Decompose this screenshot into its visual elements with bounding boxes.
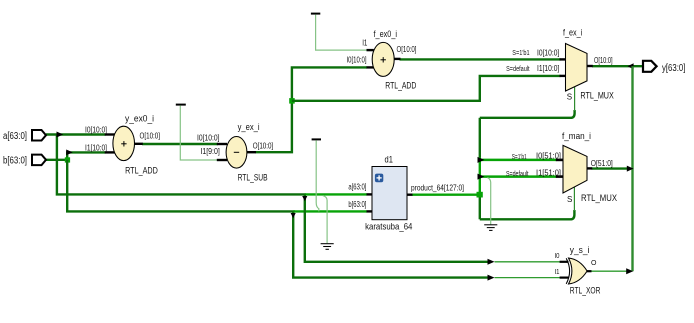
node arrow f_man I1 [478, 174, 485, 180]
corner arrow at b drop [291, 213, 296, 218]
wire: b branch down vertical and bottom run to karatsuba b [67, 160, 367, 212]
svg-text:S=1'b1: S=1'b1 [512, 50, 529, 57]
svg-text:RTL_XOR: RTL_XOR [570, 286, 601, 297]
const tie T2 [312, 139, 321, 211]
node arrow on b upper branch [66, 150, 73, 156]
junction square on b wire [65, 157, 70, 162]
svg-text:I1[10:0]: I1[10:0] [85, 143, 107, 153]
svg-text:a[63:0]: a[63:0] [3, 131, 27, 142]
wire: f_man_i I0 branch [480, 159, 557, 162]
svg-text:y[63:0]: y[63:0] [662, 63, 686, 74]
node arrow f_man O [627, 166, 634, 172]
wire: b drop to XOR I1 run [293, 211, 488, 277]
svg-text:f_man_i: f_man_i [562, 131, 591, 142]
port a[63:0] [3, 130, 46, 142]
wire: f_man_i O to vertical [592, 167, 629, 169]
wire: XOR O to vertical [591, 270, 629, 272]
svg-text:y_ex_i: y_ex_i [238, 122, 260, 133]
thin wire into XOR I0 [495, 261, 562, 263]
const tie T1 for y_ex_i I1 [176, 105, 218, 160]
svg-text:y_ex0_i: y_ex0_i [125, 114, 154, 125]
junction square product [477, 192, 483, 198]
svg-text:S: S [567, 93, 572, 102]
gate y_s_i RTL_XOR [555, 245, 601, 297]
svg-text:karatsuba_64: karatsuba_64 [365, 222, 412, 233]
junction square on vertical [289, 98, 295, 104]
svg-text:S=1'b1: S=1'b1 [512, 154, 527, 161]
node arrow on a wire [57, 132, 64, 138]
svg-text:RTL_MUX: RTL_MUX [581, 193, 618, 204]
op y_ex0_i RTL_ADD [85, 114, 160, 177]
svg-text:S: S [567, 195, 572, 204]
block d1 karatsuba_64 [348, 154, 464, 232]
wire: product_64 run [412, 193, 478, 195]
mux f_ex_i RTL_MUX [506, 28, 614, 102]
wire: f_ex_i O to y port [592, 65, 643, 67]
port y[63:0] [643, 61, 686, 74]
svg-text:RTL_ADD: RTL_ADD [125, 165, 158, 176]
svg-text:f_ex_i: f_ex_i [563, 28, 582, 39]
node arrow at y port junction (tip left) [628, 63, 634, 69]
svg-text:O[10:0]: O[10:0] [140, 131, 161, 141]
svg-text:S=default: S=default [506, 171, 529, 178]
wire: y_ex0_i O to y_ex_i I0 [142, 143, 218, 145]
svg-text:a[63:0]: a[63:0] [348, 181, 366, 191]
wire: f_ex_i S path [480, 87, 575, 118]
thin wire into XOR I1 [495, 277, 562, 279]
svg-text:I1[51:0]: I1[51:0] [536, 168, 561, 178]
svg-text:I0[10:0]: I0[10:0] [197, 132, 220, 142]
svg-text:RTL_SUB: RTL_SUB [238, 173, 268, 184]
svg-text:b[63:0]: b[63:0] [348, 199, 366, 209]
op y_ex_i RTL_SUB [197, 122, 273, 183]
wire: a input run to y_ex0_i I0 [46, 133, 106, 135]
svg-text:I0[10:0]: I0[10:0] [537, 48, 559, 58]
svg-text:I0[10:0]: I0[10:0] [347, 55, 367, 65]
ground G1 tap from a run [321, 196, 334, 250]
node arrow before XOR I1 [488, 275, 495, 281]
svg-text:I0[10:0]: I0[10:0] [85, 125, 107, 135]
svg-text:O: O [591, 260, 597, 267]
svg-text:O[10:0]: O[10:0] [253, 140, 274, 150]
svg-text:O[51:0]: O[51:0] [591, 158, 613, 168]
ground G2 tap from f_man I1 wire [484, 178, 497, 231]
wire: a branch down-left vertical and bottom run to karatsuba a [57, 135, 367, 195]
svg-text:b[63:0]: b[63:0] [3, 156, 27, 167]
corner arrow at a drop [302, 196, 307, 201]
svg-text:I1: I1 [362, 38, 367, 48]
wire: b branch up to y_ex0_i I1 [67, 152, 105, 159]
mux f_man_i RTL_MUX [506, 131, 618, 204]
op f_ex0_i RTL_ADD [347, 29, 417, 91]
wire: b input run [46, 159, 69, 161]
svg-text:RTL_ADD: RTL_ADD [385, 81, 416, 92]
svg-text:RTL_MUX: RTL_MUX [580, 90, 614, 101]
svg-text:I1: I1 [555, 269, 560, 276]
wire: a drop to XOR I0 run [305, 194, 488, 261]
node arrow f_man I0 [478, 157, 485, 163]
const tie T3 for f_ex0_i I1 [311, 14, 368, 51]
svg-text:I0[51:0]: I0[51:0] [536, 151, 561, 161]
vertical bus on right [631, 66, 633, 271]
wire: y_ex_i O up to f_ex0_i I0 [256, 67, 368, 152]
port b[63:0] [3, 155, 46, 167]
wire: f_ex0_i O to f_ex_i I0 [400, 58, 561, 60]
wire: f_man_i S path [480, 187, 575, 219]
node arrow before XOR I0 [488, 259, 495, 265]
wire: product vertical bus [479, 118, 481, 220]
wire: branch to f_ex_i I1 [292, 76, 561, 101]
svg-text:I1[10:0]: I1[10:0] [537, 63, 559, 73]
svg-text:O[10:0]: O[10:0] [594, 55, 613, 65]
wire: f_man_i I1 branch [480, 175, 557, 178]
node arrow XOR O [626, 268, 633, 274]
svg-text:y_s_i: y_s_i [570, 245, 590, 256]
svg-text:I0: I0 [555, 253, 560, 260]
svg-text:S=default: S=default [506, 66, 530, 73]
svg-text:d1: d1 [385, 154, 393, 165]
svg-text:product_64[127:0]: product_64[127:0] [411, 182, 464, 192]
svg-text:O[10:0]: O[10:0] [397, 44, 417, 54]
svg-text:I1[9:0]: I1[9:0] [200, 146, 219, 156]
svg-text:f_ex0_i: f_ex0_i [374, 29, 398, 40]
